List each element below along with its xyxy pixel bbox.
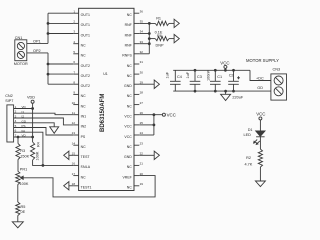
resistor R2 refdes label <box>246 156 251 160</box>
svg-text:100K: 100K <box>35 151 39 160</box>
IC U1 pin 19 name NC <box>127 186 133 190</box>
wire VREF loop from pin20 to PR1 wiper <box>23 176 156 197</box>
svg-text:NC: NC <box>127 94 133 98</box>
resistor R6 value label DNP <box>156 43 164 47</box>
svg-text:NC: NC <box>127 104 133 108</box>
wire R3 to PR1 <box>17 160 19 172</box>
IC U1 pin number 11 <box>72 111 75 115</box>
svg-text:VCC: VCC <box>124 125 132 129</box>
resistor R5 refdes label <box>21 205 26 209</box>
IC U1 pin 2 name OUT1 <box>81 23 90 27</box>
IC U1 pin 2 stub (OUT1) <box>73 22 78 24</box>
wire TEST1 pin18 stub to arrow <box>69 185 73 187</box>
IC U1 pin 4 stub (NC) <box>73 43 78 45</box>
IC U1 pin 25 stub (VCC) <box>134 124 139 126</box>
power symbol VCC above capacitor bank <box>220 61 229 69</box>
junction C2 top rail <box>232 69 235 72</box>
svg-text:14: 14 <box>72 141 76 145</box>
IC U1 pin number 3 <box>73 30 75 34</box>
IC U1 pin number 14 <box>72 141 76 145</box>
connector CN2 pin number 2 <box>15 110 17 114</box>
svg-text:MOTOR SUPPLY: MOTOR SUPPLY <box>246 58 279 63</box>
svg-text:NC: NC <box>127 74 133 78</box>
IC U1 pin 23 stub (NC) <box>134 144 139 146</box>
wire OUT1 vertical bus <box>47 13 49 43</box>
junction VCC bus pin26 <box>153 113 156 116</box>
connector CN2 SIP7 body <box>7 105 14 142</box>
wire OP2 from CN1 to OUT2 bus <box>27 52 48 54</box>
svg-text:PR1: PR1 <box>20 168 27 172</box>
IC U1 pin 22 stub (GND) <box>134 154 139 156</box>
net label OP2 <box>33 49 41 53</box>
resistor R5 <box>16 202 20 216</box>
junction OUT1 bus pin3 <box>47 32 50 35</box>
potentiometer PR1 <box>16 171 24 184</box>
junction VCC bus pin25 <box>153 124 156 127</box>
svg-text:30: 30 <box>140 70 144 74</box>
svg-text:FAILA: FAILA <box>81 165 91 169</box>
wire CN2 pin1 VD to VDD junction <box>14 108 33 110</box>
svg-text:NC: NC <box>81 175 87 179</box>
svg-text:DNP: DNP <box>156 43 164 47</box>
capacitor C2 refdes label <box>229 74 234 78</box>
wire CN2 pin3 I2 to IC IN2 pin12 <box>14 118 74 125</box>
IC U1 pin number 29 <box>140 81 144 85</box>
capacitor C1 value label 100nF (rotated) <box>207 70 211 81</box>
IC U1 pin number 7 <box>73 70 75 74</box>
svg-text:RNF: RNF <box>125 44 132 48</box>
connector CN2 pin number 6 <box>15 129 17 133</box>
IC U1 pin 26 stub (VCC) <box>134 114 139 116</box>
wire OUT2 vertical bus <box>47 53 49 84</box>
IC U1 pin 6 stub (OUT2) <box>73 63 78 65</box>
wire OUT1 bus pin1 horizontal <box>48 12 73 14</box>
IC U1 pin 10 stub (NC) <box>73 104 78 106</box>
IC U1 pin 15 name TEST <box>81 155 91 159</box>
junction C2 bottom rail <box>232 90 235 93</box>
svg-text:31: 31 <box>140 60 144 64</box>
svg-text:0E: 0E <box>21 210 26 214</box>
junction C1 bottom rail <box>214 90 217 93</box>
connector CN2 pin number 7 <box>15 133 17 137</box>
net arrow TEST1 pin18 <box>64 182 69 190</box>
svg-text:R3: R3 <box>20 149 25 153</box>
IC U1 pin number 35 <box>140 20 144 24</box>
connector CN1 terminal 1 (screw) <box>17 42 24 49</box>
IC U1 pin 4 name NC <box>81 44 87 48</box>
IC U1 pin 13 stub (PS) <box>73 134 78 136</box>
IC U1 pin 36 name NC <box>127 13 133 17</box>
IC U1 BD63150AFM body <box>79 8 134 190</box>
svg-text:GND: GND <box>124 155 132 159</box>
connector CN3 terminal 1 (screw) <box>274 76 283 85</box>
IC U1 pin 9 name NC <box>81 94 87 98</box>
junction FAILA with CN2 pin6 drop <box>42 164 45 167</box>
IC U1 pin number 27 <box>140 101 144 105</box>
svg-text:36: 36 <box>140 9 144 13</box>
capacitor C4 refdes label <box>177 75 182 79</box>
wire VDD vertical feed <box>32 103 34 142</box>
svg-text:18: 18 <box>72 182 76 186</box>
net arrow GND pin22 <box>154 151 159 159</box>
svg-text:LED: LED <box>244 133 252 137</box>
svg-text:28: 28 <box>140 91 144 95</box>
junction ground stub on bottom rail <box>224 90 227 93</box>
IC U1 pin 11 name IN1 <box>81 115 87 119</box>
IC U1 pin number 34 <box>140 30 144 34</box>
svg-text:R5: R5 <box>21 205 26 209</box>
junction RNF bus pin34 <box>148 32 151 35</box>
IC U1 pin 31 name NC <box>127 64 133 68</box>
svg-text:CN3: CN3 <box>273 67 281 71</box>
connector CN2 value label SIP7 <box>5 99 13 103</box>
IC U1 pin 34 name RNF <box>125 33 132 37</box>
svg-text:U1: U1 <box>103 72 108 76</box>
svg-text:NC: NC <box>81 145 87 149</box>
svg-text:SIP7: SIP7 <box>5 99 13 103</box>
svg-text:D1: D1 <box>248 128 253 132</box>
capacitor C3 value label 1uF (rotated) <box>186 71 190 78</box>
IC U1 pin number 13 <box>72 131 76 135</box>
resistor R5 value label 0E <box>21 210 26 214</box>
IC U1 pin number 28 <box>140 91 144 95</box>
text MOTOR SUPPLY heading <box>246 58 279 63</box>
capacitor C1 refdes label <box>217 75 222 79</box>
connector CN1 refdes label <box>15 36 23 40</box>
svg-text:R2: R2 <box>246 156 251 160</box>
IC U1 pin 33 stub (RNF) <box>134 43 139 45</box>
svg-text:OP1: OP1 <box>33 39 41 43</box>
IC U1 pin 14 name NC <box>81 145 87 149</box>
ground symbol (bottom left) <box>12 222 23 228</box>
wire R3 top lead <box>17 137 19 144</box>
IC U1 pin 27 stub (NC) <box>134 104 139 106</box>
svg-text:NC: NC <box>81 44 87 48</box>
connector CN3 terminal 2 (screw) <box>274 87 283 96</box>
svg-text:CN2: CN2 <box>5 94 13 98</box>
wire CN2 pin6 FA to FAILA net <box>14 132 43 165</box>
resistor R1 <box>155 21 174 25</box>
svg-text:OUT1: OUT1 <box>81 23 90 27</box>
potentiometer PR1 value label 100K <box>20 182 29 186</box>
svg-text:10: 10 <box>72 101 76 105</box>
svg-text:1uF: 1uF <box>186 71 190 78</box>
IC U1 pin number 4 <box>73 40 75 44</box>
svg-text:VCC: VCC <box>220 61 229 66</box>
wire RNF vertical bus <box>148 23 150 53</box>
IC U1 pin 14 stub (NC) <box>73 144 78 146</box>
IC U1 pin 30 name NC <box>127 74 133 78</box>
net label VD on CN2 pin 7 <box>22 134 27 138</box>
svg-text:GD: GD <box>257 86 263 90</box>
terminal VCC circle (pin26 net) <box>162 113 165 116</box>
net label PS on CN2 pin 5 <box>22 124 26 128</box>
IC U1 pin 15 stub (TEST) <box>73 154 78 156</box>
net arrow at R1 output <box>174 19 179 27</box>
junction OUT2 bus pin7 <box>47 73 50 76</box>
IC U1 pin 29 stub (GND) <box>134 83 139 85</box>
IC U1 pin 27 name NC <box>127 104 133 108</box>
IC U1 pin number 31 <box>140 60 144 64</box>
net label GD on CN2 pin 4 <box>22 119 27 123</box>
svg-text:+DC: +DC <box>256 76 264 80</box>
wire OUT2 bus pin6 horizontal <box>48 63 73 65</box>
connector CN3 body <box>271 74 287 100</box>
IC U1 pin number 2 <box>73 20 75 24</box>
connector CN2 pin number 3 <box>15 114 17 118</box>
wire R2 to ground <box>259 167 261 181</box>
wire VCC pin25 to bus <box>139 124 154 126</box>
IC U1 pin 24 name VCC <box>124 135 132 139</box>
IC U1 pin 12 name IN2 <box>81 125 87 129</box>
IC U1 pin number 5 <box>73 50 75 54</box>
IC U1 pin 32 stub (RNFS) <box>134 53 139 55</box>
IC U1 pin number 36 <box>140 9 144 13</box>
wire CN2 pin4 GD to ground <box>14 123 55 127</box>
IC U1 pin 17 name NC <box>81 175 87 179</box>
wire PR1 to R5 <box>17 185 19 203</box>
IC U1 pin 3 stub (OUT1) <box>73 33 78 35</box>
power symbol VDD <box>27 95 35 103</box>
junction R3 top with CN2 pin7 wire <box>17 136 20 139</box>
svg-text:VCC: VCC <box>167 112 176 117</box>
svg-text:19: 19 <box>140 182 144 186</box>
svg-text:IN2: IN2 <box>81 125 87 129</box>
svg-text:1uF: 1uF <box>165 71 169 78</box>
IC U1 pin 11 stub (IN1) <box>73 114 78 116</box>
IC U1 pin 20 name VREF <box>122 175 131 179</box>
net arrow at R6 output <box>174 34 179 42</box>
net label I2 on CN2 pin 3 <box>22 115 25 119</box>
svg-text:R4: R4 <box>37 142 41 147</box>
svg-text:100K: 100K <box>20 182 29 186</box>
IC U1 pin number 25 <box>140 121 144 125</box>
svg-text:RNFS: RNFS <box>122 54 132 58</box>
wire VCC top rail of capacitor bank <box>173 69 250 71</box>
svg-text:TEST1: TEST1 <box>81 186 92 190</box>
capacitor C3 <box>190 70 201 91</box>
ground symbol (LED branch) <box>255 181 265 187</box>
capacitor C2 value label 220uF <box>232 96 243 100</box>
junction VCC feed on top rail <box>224 69 227 72</box>
connector CN2 pin number 1 <box>15 105 17 109</box>
IC U1 pin 28 name NC <box>127 94 133 98</box>
IC U1 pin 13 name PS <box>81 135 86 139</box>
wire TEST pin15 stub to arrow <box>69 154 73 156</box>
IC U1 pin number 15 <box>72 152 76 156</box>
IC U1 pin 21 name NC <box>127 165 133 169</box>
wire GND pin22 to arrow <box>139 154 154 156</box>
net label I1 on CN2 pin 2 <box>22 110 25 114</box>
svg-text:VCC: VCC <box>256 111 265 116</box>
junction VDD with CN2 pin7 / R4 <box>31 136 34 139</box>
IC U1 pin 34 stub (RNF) <box>134 33 139 35</box>
wire RNFS pin32 to bus <box>139 53 149 55</box>
svg-text:27: 27 <box>140 101 144 105</box>
net label +DC <box>256 76 264 80</box>
svg-text:CN1: CN1 <box>15 36 23 40</box>
diode D1 value label LED <box>244 133 252 137</box>
net label VCC at pin26 terminal <box>167 112 176 117</box>
connector CN1 body <box>15 40 27 61</box>
svg-text:IN1: IN1 <box>81 115 87 119</box>
connector CN2 pin number 5 <box>15 124 17 128</box>
net label VD on CN2 pin 1 <box>22 105 27 109</box>
IC U1 pin number 16 <box>72 162 76 166</box>
svg-text:OUT2: OUT2 <box>81 84 90 88</box>
IC U1 pin 35 name RNF <box>125 23 132 27</box>
net arrow GND pin29 <box>154 80 159 89</box>
IC U1 pin number 17 <box>72 172 76 176</box>
svg-text:NC: NC <box>127 145 133 149</box>
wire RNF pin35 to bus and R1 <box>139 22 155 24</box>
IC U1 pin 35 stub (RNF) <box>134 22 139 24</box>
svg-text:PS: PS <box>81 135 86 139</box>
IC U1 pin 7 name OUT2 <box>81 74 90 78</box>
IC U1 pin 28 stub (NC) <box>134 93 139 95</box>
wire OUT1 bus pin2 horizontal <box>48 22 73 24</box>
IC U1 pin number 21 <box>140 162 144 166</box>
IC U1 pin 33 name RNF <box>125 44 132 48</box>
potentiometer PR1 refdes label <box>20 168 27 172</box>
resistor R3 refdes label <box>20 149 25 153</box>
IC U1 pin 32 name RNFS <box>122 54 132 58</box>
resistor R3 value label 150K <box>20 155 29 159</box>
IC U1 pin 23 name NC <box>127 145 133 149</box>
capacitor C2 <box>228 70 239 91</box>
diode D1 refdes label <box>248 128 253 132</box>
capacitor C4 value label 1uF (rotated) <box>165 71 169 78</box>
svg-text:VREF: VREF <box>122 175 131 179</box>
IC U1 pin 8 stub (OUT2) <box>73 83 78 85</box>
wire OP1 from CN1 to OUT1 bus <box>27 42 48 44</box>
wire OUT2 bus pin8 horizontal <box>48 83 73 85</box>
IC U1 pin number 33 <box>140 40 144 44</box>
IC U1 pin 3 name OUT1 <box>81 33 90 37</box>
svg-text:RNF: RNF <box>125 33 132 37</box>
wire OUT1 bus pin3 horizontal <box>48 33 73 35</box>
svg-text:NC: NC <box>127 64 133 68</box>
capacitor C3 refdes label <box>197 75 202 79</box>
IC U1 pin number 12 <box>72 121 76 125</box>
IC U1 pin 26 name VCC <box>124 115 132 119</box>
IC U1 pin 19 stub (NC) <box>134 185 139 187</box>
svg-text:NC: NC <box>81 54 87 58</box>
svg-text:21: 21 <box>140 162 144 166</box>
IC U1 pin number 30 <box>140 70 144 74</box>
wire +DC from top rail to CN3 <box>250 70 271 80</box>
wire OUT2 bus pin7 horizontal <box>48 73 73 75</box>
IC U1 refdes label U1 <box>103 72 108 76</box>
wire R6 tap horizontal <box>149 38 155 40</box>
wire VCC terminal to top rail <box>224 68 226 70</box>
IC U1 pin 25 name VCC <box>124 125 132 129</box>
resistor R6 refdes label <box>157 34 162 38</box>
svg-text:R1: R1 <box>156 17 161 21</box>
svg-text:OP2: OP2 <box>33 49 41 53</box>
svg-text:4.7K: 4.7K <box>245 163 253 167</box>
resistor R3 <box>16 144 20 160</box>
wire GND bottom rail of capacitor bank <box>173 90 271 92</box>
junction RNF bus pin35 <box>148 22 151 25</box>
IC U1 pin 18 stub (TEST1) <box>73 185 78 187</box>
svg-text:BD63150AFM: BD63150AFM <box>100 94 106 132</box>
junction VDD with CN2 pin1 <box>31 107 34 110</box>
IC U1 pin 1 name OUT1 <box>81 13 90 17</box>
resistor R1 refdes label <box>156 17 161 21</box>
wire RNF pin33 to bus <box>139 43 149 45</box>
junction OUT2 bus pin6 <box>47 63 50 66</box>
svg-text:NC: NC <box>127 165 133 169</box>
IC U1 pin 18 name TEST1 <box>81 186 92 190</box>
capacitor C4 <box>170 70 181 91</box>
net arrow TEST pin15 <box>64 151 69 159</box>
svg-text:RNF: RNF <box>125 23 132 27</box>
IC U1 pin number 10 <box>72 101 76 105</box>
svg-text:VCC: VCC <box>124 135 132 139</box>
IC U1 pin 30 stub (NC) <box>134 73 139 75</box>
IC U1 pin 16 stub (FAILA) <box>73 164 78 166</box>
svg-text:100nF: 100nF <box>207 70 211 81</box>
IC U1 pin 20 stub (VREF) <box>134 175 139 177</box>
ground symbol (CN2 GD) <box>50 127 59 134</box>
wire R4 bottom to FAILA pin16 <box>33 160 74 165</box>
IC U1 pin 24 stub (VCC) <box>134 134 139 136</box>
IC U1 pin number 6 <box>73 60 75 64</box>
junction RNF bus pin33 <box>148 42 151 45</box>
IC U1 pin number 18 <box>72 182 76 186</box>
wire VCC pin26 to terminal <box>139 114 162 116</box>
junction C3 bottom rail <box>194 90 197 93</box>
IC U1 pin 10 name NC <box>81 104 87 108</box>
IC U1 pin number 23 <box>140 141 144 145</box>
wire VCC pin24 to bus <box>139 134 154 136</box>
resistor R4 value label 100K (rotated) <box>35 151 39 160</box>
connector CN1 value label MOTOR <box>14 62 28 66</box>
svg-text:23: 23 <box>140 141 144 145</box>
wire CN2 pin7 VD to VDD vertical <box>14 136 33 138</box>
svg-text:C2: C2 <box>229 74 234 78</box>
svg-text:C3: C3 <box>197 75 202 79</box>
junction C1 top rail <box>214 69 217 72</box>
IC U1 pin 9 stub (NC) <box>73 93 78 95</box>
IC U1 pin number 20 <box>140 172 144 176</box>
wire CN2 pin2 I1 to IC IN1 pin11 <box>14 113 74 115</box>
wire GND pin29 to arrow <box>139 83 154 85</box>
IC U1 pin number 9 <box>73 91 75 95</box>
diode D1 LED <box>254 131 265 145</box>
wire CN2 pin5 PS to IC PS pin13 <box>14 128 74 136</box>
IC U1 pin 5 stub (NC) <box>73 53 78 55</box>
wire R5 to ground <box>17 216 19 222</box>
svg-text:NC: NC <box>127 186 133 190</box>
IC U1 pin 8 name OUT2 <box>81 84 90 88</box>
IC U1 pin number 26 <box>140 111 144 115</box>
IC U1 pin 7 stub (OUT2) <box>73 73 78 75</box>
capacitor C2 polarity plus sign <box>237 76 240 79</box>
junction C3 top rail <box>194 69 197 72</box>
svg-text:OUT2: OUT2 <box>81 64 90 68</box>
IC U1 pin number 8 <box>73 81 75 85</box>
IC U1 pin 6 name OUT2 <box>81 64 90 68</box>
connector CN2 refdes label CN2 <box>5 94 13 98</box>
IC U1 pin 31 stub (NC) <box>134 63 139 65</box>
IC U1 pin 22 name GND <box>124 155 132 159</box>
ground symbol (capacitor bank) <box>221 94 231 100</box>
IC U1 pin 1 stub (OUT1) <box>73 12 78 14</box>
IC U1 pin number 32 <box>140 50 144 54</box>
svg-text:220uF: 220uF <box>232 96 243 100</box>
